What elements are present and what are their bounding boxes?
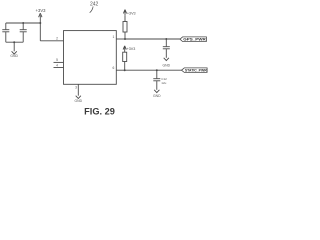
- svg-text:GND: GND: [10, 54, 18, 58]
- power +3V3 arrow P1 (top-left): [39, 13, 42, 41]
- svg-text:GPS_PWR: GPS_PWR: [183, 37, 206, 42]
- net label STATIC_PWR: [182, 68, 208, 73]
- op IC U1 body: [64, 31, 117, 85]
- wire bottom pin to ground: [77, 84, 79, 95]
- node C3 tap: [165, 38, 167, 40]
- node C4 tap: [156, 69, 158, 71]
- svg-text:GND: GND: [153, 94, 161, 98]
- node R2 / pin6 junction: [124, 69, 126, 71]
- svg-text:242: 242: [90, 1, 99, 7]
- svg-text:1: 1: [112, 35, 114, 39]
- net label GPS_PWR: [180, 37, 206, 42]
- capacitor C2: [20, 23, 27, 42]
- svg-text:5: 5: [56, 58, 58, 62]
- wire +3V3 to pin 2: [40, 40, 63, 42]
- wire cap bottom bus: [6, 41, 23, 43]
- node cap bus / +3V3 riser junction: [39, 22, 41, 24]
- node cap bus / C2 junction: [22, 22, 24, 24]
- svg-text:12u: 12u: [161, 81, 166, 85]
- svg-text:6: 6: [112, 66, 114, 70]
- node cap bottom / gnd tap: [13, 41, 15, 43]
- wire cap top bus: [6, 22, 41, 24]
- wire pin 6 to R2 node: [116, 69, 125, 71]
- svg-text:STATIC_PWR: STATIC_PWR: [185, 69, 207, 73]
- wire stub pin 4 (left): [54, 67, 64, 69]
- wire GPS_PWR net: [125, 38, 180, 40]
- svg-text:GND: GND: [75, 99, 83, 103]
- power +3V3 arrow P3 (above R2): [123, 46, 126, 52]
- resistor R2: [123, 52, 127, 71]
- svg-text:GND: GND: [163, 64, 171, 68]
- svg-text:4: 4: [56, 63, 58, 67]
- svg-text:+3V3: +3V3: [127, 11, 136, 15]
- capacitor C3: [163, 39, 170, 58]
- ground GND1 (under C1/C2): [12, 42, 17, 54]
- svg-text:FIG. 29: FIG. 29: [84, 107, 115, 117]
- resistor R1: [123, 15, 127, 39]
- leader line for 242: [90, 6, 93, 12]
- svg-text:2: 2: [56, 37, 58, 41]
- ground GND4 (under C4): [154, 90, 159, 93]
- capacitor C4: [153, 70, 160, 90]
- power +3V3 arrow P2 (above R1): [123, 10, 126, 16]
- wire pin 1 to R1 node: [116, 38, 125, 40]
- node R1 / pin1 junction: [124, 38, 126, 40]
- wire STATIC_PWR net: [125, 69, 182, 71]
- ground GND3 (under C3): [164, 58, 169, 61]
- ground GND2 (under U1): [76, 96, 81, 99]
- svg-text:+3V3: +3V3: [127, 47, 136, 51]
- wire stub pin 5 (left): [54, 61, 64, 63]
- svg-text:3: 3: [75, 86, 77, 90]
- svg-text:+3V3: +3V3: [36, 8, 47, 13]
- capacitor C1: [2, 23, 9, 42]
